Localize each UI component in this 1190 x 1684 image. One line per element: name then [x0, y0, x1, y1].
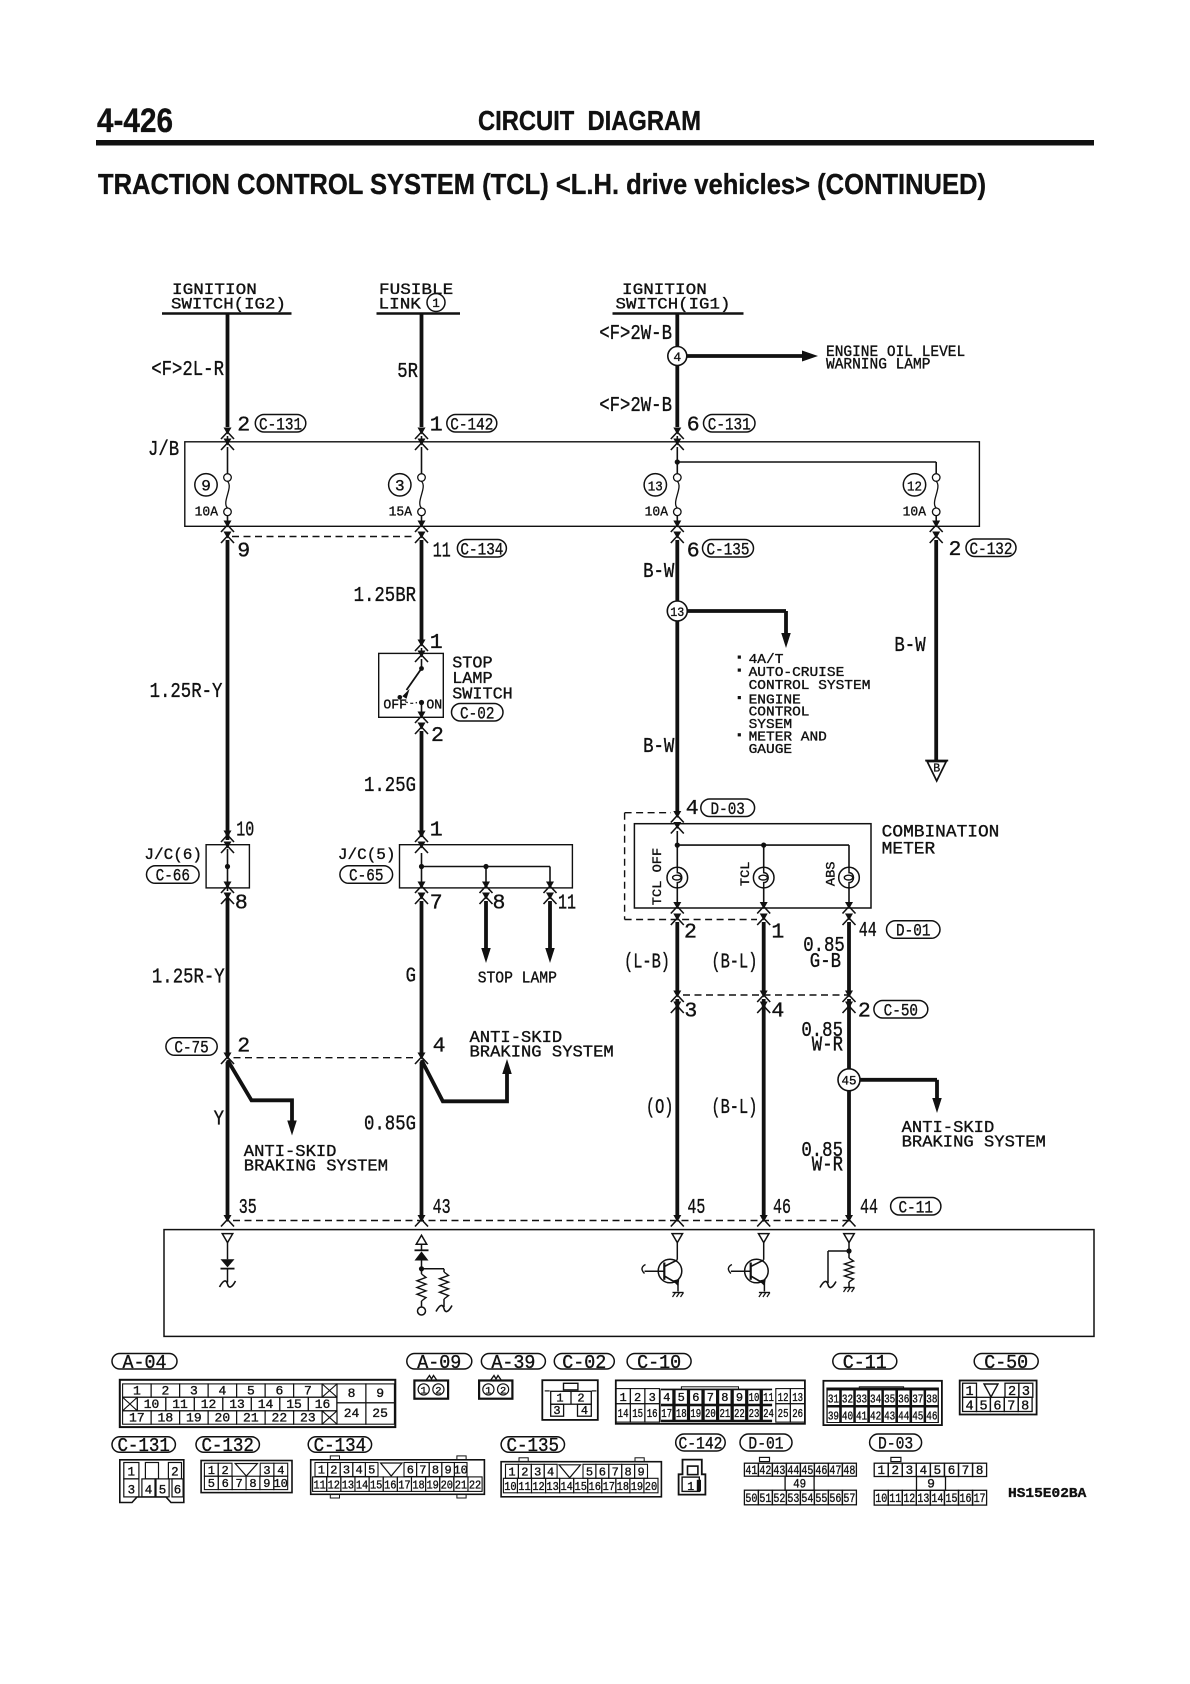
svg-text:<F>2W-B: <F>2W-B [599, 323, 672, 346]
connector label C-134 [308, 1437, 371, 1453]
svg-text:1: 1 [318, 1464, 325, 1478]
svg-text:50: 50 [745, 1492, 757, 1506]
svg-text:1: 1 [619, 1391, 626, 1405]
svg-text:C-142: C-142 [450, 415, 493, 435]
svg-text:6: 6 [948, 1464, 956, 1478]
svg-text:44: 44 [859, 919, 877, 943]
svg-text:5: 5 [247, 1384, 255, 1399]
svg-text:10A: 10A [195, 506, 219, 521]
J/B exits dashed connector line [232, 536, 416, 538]
svg-text:C-50: C-50 [984, 1352, 1028, 1374]
svg-text:11: 11 [763, 1391, 774, 1405]
svg-text:C-132: C-132 [970, 540, 1013, 560]
svg-text:20: 20 [705, 1407, 716, 1421]
combination meter connector dashed boundary D-03 [624, 813, 626, 920]
wire C J/B to node 13 [675, 540, 679, 601]
svg-text:12: 12 [903, 1492, 915, 1506]
svg-text:C-02: C-02 [460, 704, 494, 724]
svg-text:2: 2 [237, 414, 250, 438]
svg-text:4: 4 [547, 1466, 554, 1480]
svg-text:ON: ON [426, 699, 442, 714]
svg-text:9: 9 [263, 1477, 270, 1491]
pull resistor at pin 44 [844, 1234, 855, 1243]
svg-text:C-142: C-142 [678, 1435, 722, 1455]
connector C-132 pin grid [201, 1461, 292, 1493]
bottom ECU box [164, 1230, 1094, 1337]
wire D J/B to ground B [934, 540, 938, 760]
svg-text:D-01: D-01 [896, 922, 930, 942]
svg-text:C-135: C-135 [507, 1435, 560, 1457]
svg-text:BRAKING SYSTEM: BRAKING SYSTEM [470, 1043, 614, 1062]
connector C-10 pin grid [616, 1380, 805, 1423]
TCL OFF lamp [676, 845, 678, 867]
svg-text:C-11: C-11 [843, 1352, 887, 1374]
junction connector J/C(5) [418, 831, 426, 838]
svg-text:TRACTION CONTROL SYSTEM (TCL): TRACTION CONTROL SYSTEM (TCL) <L.H. driv… [98, 169, 986, 201]
connector label C-135 [501, 1437, 564, 1453]
svg-text:1: 1 [877, 1464, 885, 1478]
svg-text:46: 46 [815, 1464, 827, 1478]
svg-text:7: 7 [962, 1464, 970, 1478]
svg-text:7: 7 [304, 1384, 312, 1399]
svg-text:44: 44 [860, 1196, 878, 1220]
wire IG2 feed [226, 314, 230, 428]
svg-text:15: 15 [370, 1479, 382, 1493]
svg-text:6: 6 [599, 1466, 606, 1480]
connector C-50 pin grid [960, 1381, 1037, 1415]
svg-text:40: 40 [842, 1410, 853, 1424]
svg-text:55: 55 [815, 1492, 827, 1506]
svg-text:9: 9 [444, 1464, 451, 1478]
svg-text:25: 25 [778, 1407, 789, 1421]
svg-text:(L-B): (L-B) [624, 952, 670, 975]
svg-text:7: 7 [419, 1464, 426, 1478]
connector C-131 pin grid [120, 1460, 184, 1503]
svg-text:2: 2 [521, 1466, 528, 1480]
svg-text:D-03: D-03 [711, 800, 745, 820]
svg-text:56: 56 [829, 1492, 841, 1506]
svg-text:Y: Y [214, 1109, 225, 1132]
svg-text:2: 2 [330, 1464, 337, 1478]
bottom pins 45 46 44 C-11 [673, 1215, 681, 1222]
transistor Q1 at pin 45 [672, 1234, 683, 1243]
svg-text:SWITCH(IG2): SWITCH(IG2) [171, 296, 286, 314]
diode to ground at pin 35 [222, 1234, 233, 1243]
svg-text:42: 42 [870, 1410, 881, 1424]
meter internal bus [676, 831, 678, 845]
svg-text:1: 1 [430, 819, 443, 843]
connector label C-02 [554, 1354, 614, 1370]
svg-text:G-B: G-B [810, 951, 841, 974]
svg-text:C-50: C-50 [884, 1001, 918, 1021]
branch to engine oil level warning lamp [687, 354, 802, 358]
svg-text:5: 5 [368, 1464, 375, 1478]
wires meter to C-50 crossing [675, 922, 679, 994]
svg-text:34: 34 [870, 1393, 881, 1407]
svg-text:3: 3 [190, 1384, 198, 1399]
svg-text:0.85G: 0.85G [364, 1114, 416, 1137]
svg-text:16: 16 [960, 1492, 972, 1506]
J/C(5) exit pin 8 to stop lamp [482, 882, 490, 889]
svg-text:17: 17 [129, 1410, 145, 1425]
svg-text:<F>2W-B: <F>2W-B [599, 395, 672, 418]
branch wire A to anti-skid braking system [228, 1060, 293, 1122]
svg-text:41: 41 [745, 1464, 757, 1478]
fuse 9 10A [224, 474, 232, 482]
svg-text:10: 10 [273, 1477, 287, 1491]
connector label C-142 [676, 1434, 726, 1451]
svg-text:2: 2 [500, 1385, 506, 1397]
svg-text:14: 14 [356, 1479, 368, 1493]
transistor Q2 at pin 46 [758, 1234, 769, 1243]
svg-text:D-01: D-01 [748, 1435, 783, 1455]
svg-text:(B-L): (B-L) [711, 1097, 757, 1120]
svg-text:13: 13 [670, 606, 684, 620]
svg-text:37: 37 [912, 1393, 923, 1407]
svg-text:1.25R-Y: 1.25R-Y [150, 681, 223, 704]
svg-text:7: 7 [707, 1391, 714, 1405]
stop lamp switch exit pin 2 [418, 712, 426, 719]
svg-text:3: 3 [684, 999, 697, 1023]
svg-text:C-131: C-131 [259, 415, 302, 435]
connector C-142 [679, 1460, 706, 1495]
svg-text:8: 8 [348, 1386, 356, 1401]
svg-text:19: 19 [426, 1479, 438, 1493]
svg-text:51: 51 [759, 1492, 771, 1506]
svg-text:11: 11 [889, 1492, 901, 1506]
svg-text:4: 4 [673, 350, 681, 365]
svg-text:W-R: W-R [812, 1034, 844, 1057]
svg-text:20: 20 [645, 1480, 657, 1494]
node 45 branch to anti-skid [838, 1069, 860, 1091]
TCL lamp [763, 845, 765, 867]
svg-text:42: 42 [759, 1464, 771, 1478]
svg-text:46: 46 [926, 1410, 937, 1424]
meter exit terminals [673, 902, 681, 909]
svg-text:BRAKING SYSTEM: BRAKING SYSTEM [244, 1157, 388, 1176]
svg-text:TCL OFF: TCL OFF [650, 848, 665, 905]
svg-text:16: 16 [315, 1397, 331, 1412]
svg-text:5: 5 [586, 1466, 593, 1480]
connector C-50 dashed crossing [683, 994, 849, 996]
svg-text:G: G [406, 965, 416, 988]
svg-text:11: 11 [518, 1480, 530, 1494]
svg-text:22: 22 [272, 1410, 288, 1425]
svg-text:16: 16 [589, 1480, 601, 1494]
svg-text:32: 32 [842, 1393, 853, 1407]
svg-text:17: 17 [398, 1479, 410, 1493]
svg-text:BRAKING SYSTEM: BRAKING SYSTEM [902, 1133, 1046, 1152]
wire B switch to J/C(5) [420, 731, 424, 837]
connector label A-09 [407, 1354, 472, 1370]
svg-text:24: 24 [763, 1407, 774, 1421]
svg-text:4: 4 [663, 1391, 670, 1405]
connector C-131 pin 6 crossing [673, 428, 681, 435]
wire F upper segment [847, 999, 851, 1069]
bottom connector dashed line [233, 1220, 849, 1222]
svg-text:17: 17 [603, 1480, 615, 1494]
svg-text:8: 8 [432, 1464, 439, 1478]
svg-text:15: 15 [575, 1480, 587, 1494]
svg-text:HS15E02BA: HS15E02BA [1008, 1486, 1087, 1502]
svg-text:2: 2 [634, 1391, 641, 1405]
svg-text:6: 6 [692, 1391, 699, 1405]
svg-text:1.25BR: 1.25BR [354, 585, 417, 608]
svg-text:1: 1 [430, 414, 443, 438]
svg-text:4: 4 [686, 797, 699, 821]
svg-text:12: 12 [907, 480, 922, 496]
pin 8 label [224, 882, 232, 889]
svg-text:12: 12 [532, 1480, 544, 1494]
svg-text:WARNING LAMP: WARNING LAMP [826, 356, 930, 374]
svg-text:48: 48 [843, 1464, 855, 1478]
connector label C-10 [627, 1354, 691, 1370]
J/C(5) exit pin 7 [418, 882, 426, 889]
svg-text:2: 2 [161, 1384, 169, 1399]
svg-text:14: 14 [618, 1407, 629, 1421]
svg-text:4: 4 [433, 1035, 446, 1059]
svg-text:1: 1 [432, 297, 440, 311]
svg-text:13: 13 [342, 1479, 354, 1493]
combination meter box [634, 824, 871, 908]
svg-text:7: 7 [612, 1466, 619, 1480]
svg-text:4-426: 4-426 [97, 102, 173, 140]
svg-text:J/B: J/B [148, 439, 179, 462]
connector A-39 [490, 1376, 501, 1381]
connector label A-04 [112, 1354, 177, 1370]
svg-text:6: 6 [174, 1483, 182, 1497]
connector C-142 pin 1 crossing [418, 428, 426, 435]
svg-text:C-02: C-02 [562, 1352, 606, 1374]
svg-text:53: 53 [787, 1492, 799, 1506]
svg-text:13: 13 [648, 480, 663, 496]
svg-text:8: 8 [721, 1391, 728, 1405]
svg-text:22: 22 [734, 1407, 745, 1421]
svg-text:ABS: ABS [823, 861, 838, 886]
svg-text:4: 4 [355, 1464, 362, 1478]
svg-text:C-11: C-11 [899, 1198, 933, 1218]
svg-text:6: 6 [407, 1464, 414, 1478]
svg-text:3: 3 [649, 1391, 656, 1405]
svg-text:52: 52 [773, 1492, 785, 1506]
connector C-134 pin grid [311, 1460, 485, 1495]
svg-text:B-W: B-W [894, 635, 926, 658]
svg-text:B-W: B-W [643, 736, 675, 759]
svg-text:1: 1 [485, 1385, 491, 1397]
J/B exit wire B pin 11 C-134 [421, 516, 423, 527]
svg-text:41: 41 [856, 1410, 867, 1424]
svg-text:45: 45 [912, 1410, 923, 1424]
svg-text:CIRCUIT DIAGRAM: CIRCUIT DIAGRAM [478, 105, 701, 136]
svg-text:45: 45 [687, 1196, 705, 1220]
connector label D-01 [740, 1434, 792, 1451]
svg-text:11: 11 [558, 892, 576, 916]
connector label C-50 [974, 1354, 1038, 1370]
svg-text:SWITCH: SWITCH [452, 686, 513, 705]
wire A J/B to C-75 [226, 540, 230, 840]
svg-text:8: 8 [1021, 1399, 1029, 1414]
svg-text:23: 23 [749, 1407, 760, 1421]
ABS lamp [848, 845, 850, 867]
svg-text:J/C(5): J/C(5) [338, 846, 396, 864]
svg-text:1: 1 [771, 921, 784, 945]
svg-text:15A: 15A [389, 506, 413, 521]
svg-text:3: 3 [395, 478, 405, 496]
svg-text:W-R: W-R [812, 1154, 844, 1177]
svg-text:J/C(6): J/C(6) [144, 846, 202, 864]
svg-text:TCL: TCL [738, 862, 753, 887]
svg-text:1.25R-Y: 1.25R-Y [152, 967, 225, 990]
svg-text:43: 43 [433, 1196, 451, 1220]
svg-text:2: 2 [237, 1035, 250, 1059]
svg-text:20: 20 [441, 1479, 453, 1493]
branch system list [738, 656, 741, 659]
svg-text:16: 16 [647, 1407, 658, 1421]
svg-text:13: 13 [792, 1391, 803, 1405]
connector A-04 pin grid [120, 1380, 396, 1427]
svg-text:11: 11 [313, 1479, 325, 1493]
J/B exit wire A [227, 516, 229, 527]
connector label C-131 [112, 1437, 175, 1453]
svg-text:4: 4 [145, 1483, 153, 1497]
svg-text:2: 2 [431, 724, 444, 748]
svg-text:3: 3 [553, 1404, 560, 1418]
svg-text:57: 57 [843, 1492, 855, 1506]
svg-text:36: 36 [898, 1393, 909, 1407]
connector C-135 pin grid [501, 1462, 661, 1497]
svg-text:GAUGE: GAUGE [749, 743, 793, 758]
connector C-75 crossing [166, 1038, 217, 1056]
wire fusible link feed [420, 314, 424, 428]
svg-text:8: 8 [235, 892, 248, 916]
svg-text:4: 4 [966, 1399, 974, 1414]
svg-text:17: 17 [661, 1407, 672, 1421]
ground triangle B [925, 760, 948, 762]
svg-text:44: 44 [898, 1410, 909, 1424]
svg-text:19: 19 [690, 1407, 701, 1421]
svg-text:5: 5 [979, 1399, 987, 1414]
svg-text:8: 8 [249, 1477, 256, 1491]
svg-text:METER: METER [882, 840, 936, 860]
svg-text:3: 3 [343, 1464, 350, 1478]
svg-text:20: 20 [215, 1410, 231, 1425]
svg-text:C-135: C-135 [707, 540, 750, 560]
svg-text:5R: 5R [397, 361, 418, 384]
svg-text:43: 43 [884, 1410, 895, 1424]
wire C node13 to meter [675, 621, 679, 814]
svg-text:C-65: C-65 [349, 867, 383, 887]
svg-text:19: 19 [631, 1480, 643, 1494]
connector D-03 pin grid [891, 1457, 901, 1461]
svg-text:6: 6 [687, 540, 700, 564]
connector C-02 [542, 1380, 598, 1420]
svg-text:A-04: A-04 [123, 1352, 167, 1374]
svg-text:C-131: C-131 [117, 1435, 170, 1457]
svg-text:C-132: C-132 [201, 1435, 254, 1457]
svg-text:24: 24 [344, 1406, 360, 1421]
svg-text:21: 21 [455, 1479, 467, 1493]
svg-text:A-39: A-39 [491, 1352, 535, 1374]
junction block J/B [185, 442, 980, 527]
svg-text:16: 16 [384, 1479, 396, 1493]
connector D-01 pin grid [760, 1457, 770, 1461]
svg-text:<F>2L-R: <F>2L-R [151, 359, 224, 382]
svg-text:46: 46 [773, 1196, 791, 1220]
svg-text:8: 8 [976, 1464, 984, 1478]
connector label A-39 [481, 1354, 545, 1370]
svg-text:3: 3 [128, 1483, 136, 1497]
svg-text:9: 9 [237, 540, 250, 564]
svg-text:9: 9 [927, 1477, 935, 1492]
connector A-09 [426, 1376, 437, 1381]
svg-text:38: 38 [926, 1393, 937, 1407]
svg-text:18: 18 [617, 1480, 629, 1494]
svg-text:10: 10 [453, 1464, 467, 1478]
J/C(5) internal bus [421, 853, 423, 867]
svg-text:35: 35 [884, 1393, 895, 1407]
svg-text:CONTROL SYSTEM: CONTROL SYSTEM [749, 679, 871, 694]
node 4 engine oil branch [668, 347, 687, 366]
svg-text:C-134: C-134 [460, 540, 503, 560]
svg-text:11: 11 [433, 540, 451, 564]
svg-text:47: 47 [829, 1464, 841, 1478]
svg-text:4: 4 [771, 999, 784, 1023]
svg-text:2: 2 [858, 999, 871, 1023]
svg-text:STOP LAMP: STOP LAMP [478, 970, 557, 989]
svg-text:SWITCH(IG1): SWITCH(IG1) [616, 296, 731, 314]
fuse 12 10A [932, 474, 940, 482]
wire A to bottom box pin 35 [226, 1062, 230, 1219]
svg-text:9: 9 [201, 478, 211, 496]
wire IG1 feed upper [675, 314, 679, 348]
svg-text:9: 9 [736, 1391, 743, 1405]
svg-text:33: 33 [856, 1393, 867, 1407]
svg-text:6: 6 [993, 1399, 1001, 1414]
svg-text:2: 2 [435, 1385, 441, 1397]
svg-text:1: 1 [687, 1481, 694, 1494]
svg-text:B-W: B-W [643, 561, 675, 584]
svg-text:C-66: C-66 [156, 867, 190, 887]
fuse 3 15A [418, 474, 426, 482]
svg-text:D-03: D-03 [878, 1435, 913, 1455]
svg-text:35: 35 [239, 1196, 257, 1220]
svg-text:1: 1 [508, 1466, 515, 1480]
svg-text:23: 23 [300, 1410, 316, 1425]
svg-text:2: 2 [171, 1466, 179, 1480]
svg-text:5: 5 [678, 1391, 685, 1405]
svg-text:7: 7 [235, 1477, 242, 1491]
stop lamp switch C-02 [418, 640, 426, 647]
svg-text:4: 4 [218, 1384, 226, 1399]
svg-text:3: 3 [534, 1466, 541, 1480]
svg-text:8: 8 [493, 892, 506, 916]
svg-text:31: 31 [828, 1393, 839, 1407]
svg-text:6: 6 [275, 1384, 283, 1399]
svg-text:21: 21 [243, 1410, 259, 1425]
svg-text:LINK: LINK [379, 296, 422, 314]
node 13 branch [667, 601, 687, 621]
J/B exit wire D pin 2 C-132 [935, 516, 937, 527]
svg-text:15: 15 [632, 1407, 643, 1421]
svg-text:7: 7 [1007, 1399, 1015, 1414]
J/B exit wire C pin 6 C-135 [676, 516, 678, 527]
connector label C-11 [833, 1354, 897, 1370]
svg-text:49: 49 [793, 1477, 806, 1492]
svg-text:12: 12 [328, 1479, 340, 1493]
connector C-131 pin 2 crossing [224, 428, 232, 435]
svg-text:2: 2 [684, 921, 697, 945]
svg-text:4: 4 [581, 1404, 588, 1418]
